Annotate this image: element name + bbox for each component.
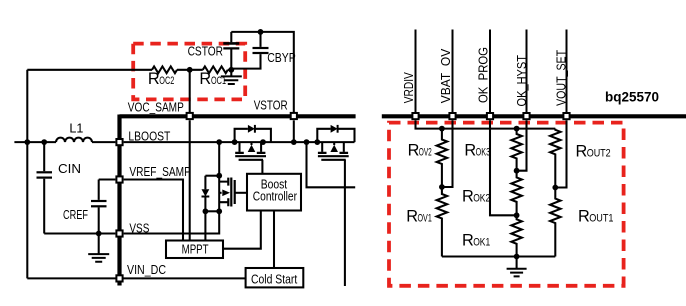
svg-text:VBAT_OV: VBAT_OV	[438, 48, 453, 103]
wire LBOOST row + stub	[14, 141, 56, 143]
svg-text:OV2: OV2	[419, 146, 432, 158]
node CBYP top	[258, 29, 264, 35]
node ROK3 top	[514, 126, 520, 132]
resistor ROK3	[511, 129, 522, 171]
wire right branch down	[307, 142, 356, 187]
node PMOS1 loop left	[232, 139, 238, 145]
IC edge right	[382, 114, 686, 118]
box Cold Start	[246, 268, 304, 287]
svg-text:LBOOST: LBOOST	[128, 128, 170, 143]
node NMOS rail tap	[216, 139, 222, 145]
wire VREF row outside	[99, 178, 116, 180]
pin VRDIV	[412, 113, 418, 119]
resistor ROV2	[437, 129, 448, 187]
svg-text:OV1: OV1	[418, 212, 432, 224]
node diode bottom	[203, 208, 209, 214]
wire MPPT to Boost Controller	[223, 211, 261, 249]
ground right	[516, 257, 518, 269]
red dashed box right (resistor network)	[389, 123, 624, 286]
svg-text:CSTOR: CSTOR	[188, 44, 223, 59]
pin OK_PROG	[487, 113, 493, 119]
svg-text:R: R	[578, 207, 590, 225]
wire VSS row outside	[44, 232, 115, 234]
node right branch	[304, 139, 310, 145]
IC outline left edge	[117, 115, 121, 286]
svg-text:OK1: OK1	[473, 236, 490, 248]
pin VBAT_OV	[449, 113, 455, 119]
wire VBAT_OV pin lead	[452, 30, 454, 113]
svg-text:R: R	[464, 141, 476, 159]
pin VOC_SAMP	[187, 113, 193, 119]
node PMOS1 right lead	[260, 139, 266, 145]
wire VBAT_OV lead	[442, 120, 453, 187]
pin VREF_SAMP	[116, 176, 122, 182]
pin VIN_DC	[116, 275, 122, 281]
svg-text:OK2: OK2	[473, 193, 490, 205]
capacitor CIN	[43, 142, 45, 171]
pin LBOOST	[116, 139, 122, 145]
wire ROC2-ROC1	[177, 69, 203, 71]
node CREF bottom	[96, 231, 102, 237]
svg-text:R: R	[462, 231, 474, 249]
svg-text:OUT1: OUT1	[589, 212, 613, 224]
wire drain to diode	[205, 175, 219, 177]
svg-text:OK3: OK3	[476, 146, 491, 158]
svg-text:R: R	[148, 70, 160, 88]
node PMOS2 loop left	[314, 139, 320, 145]
resistor ROUT2	[550, 129, 561, 188]
transistor Q3 (PMOS switch)	[322, 142, 344, 152]
pin VSTOR	[291, 113, 297, 119]
pin VOUT_SET	[563, 113, 569, 119]
svg-text:R: R	[462, 188, 474, 206]
svg-text:Cold Start: Cold Start	[251, 271, 298, 286]
node NMOS source bottom	[216, 208, 222, 214]
resistor ROC2	[152, 66, 177, 73]
wire VRDIV pin lead	[415, 30, 417, 113]
svg-text:OK_HYST: OK_HYST	[514, 55, 529, 107]
resistor ROK2	[511, 171, 522, 216]
ground left	[98, 234, 100, 254]
svg-text:R: R	[408, 141, 420, 159]
capacitor CSTOR	[230, 32, 232, 42]
IC outline top edge	[120, 114, 356, 118]
wire VIN_DC row	[27, 277, 245, 279]
wire top (VSTOR to caps)	[231, 32, 293, 112]
ground top	[230, 70, 232, 76]
box Boost Controller	[247, 174, 301, 211]
svg-text:OC2: OC2	[159, 75, 174, 87]
node NMOS drain top	[216, 173, 222, 179]
svg-text:L1: L1	[69, 121, 83, 136]
wire L1 to LBOOST pin	[92, 141, 115, 143]
wire ROC1 to gnd node	[228, 69, 232, 71]
wire VOUT_SET lead	[555, 120, 566, 187]
wire VSS inner	[124, 211, 220, 233]
node gnd top	[228, 67, 234, 73]
wire VSTOR pin lead	[293, 120, 295, 142]
wire Boost Controller to Cold Start	[273, 211, 275, 269]
svg-text:VREF_SAMP: VREF_SAMP	[129, 164, 191, 179]
wire OK_HYST pin lead	[526, 30, 528, 113]
node ROUT junction	[552, 185, 558, 191]
resistor ROC1	[203, 66, 228, 73]
svg-text:CBYP: CBYP	[267, 50, 296, 65]
node ROK3/ROK2 junction	[514, 168, 520, 174]
svg-text:VOUT_SET: VOUT_SET	[553, 50, 568, 106]
wire diode bottom to MPPT	[204, 211, 206, 240]
svg-text:R: R	[406, 207, 418, 225]
wire rail to NMOS drain	[218, 142, 220, 176]
inductor L1	[56, 138, 92, 143]
svg-text:VOC_SAMP: VOC_SAMP	[128, 99, 184, 114]
node ROV2 top	[439, 126, 445, 132]
resistor ROUT1	[550, 188, 561, 257]
node CIN tap	[41, 139, 47, 145]
svg-text:VRDIV: VRDIV	[401, 72, 416, 103]
wire OK_PROG lead	[490, 120, 517, 215]
transistor Q3 (PMOS switch) body diode	[317, 129, 330, 142]
wire bottom node	[205, 210, 219, 212]
svg-text:VSS: VSS	[129, 220, 149, 235]
box MPPT	[166, 241, 223, 259]
svg-text:CIN: CIN	[58, 161, 81, 176]
node VSTOR lead	[291, 139, 297, 145]
svg-text:CREF: CREF	[63, 207, 88, 222]
wire VIN to ROC2 (left vertical rail)	[26, 70, 28, 279]
node VIN/LBOOST	[24, 139, 30, 145]
svg-text:R: R	[199, 70, 211, 88]
capacitor CREF	[98, 180, 100, 200]
resistor ROV1	[437, 187, 448, 257]
transistor Q1 (NMOS)	[218, 176, 220, 212]
wire LBOOST inner rail	[124, 141, 355, 143]
node VOC_SAMP tap	[187, 67, 193, 73]
wire ROC row left	[27, 69, 152, 71]
wire VOC_SAMP lead inner	[189, 120, 191, 240]
node ROK2/ROK1 junction	[514, 212, 520, 218]
capacitor CBYP	[259, 32, 261, 47]
svg-text:MPPT: MPPT	[182, 241, 209, 256]
svg-text:bq25570: bq25570	[605, 89, 659, 104]
svg-text:Controller: Controller	[253, 188, 298, 203]
wire bottom rail	[442, 255, 555, 257]
svg-text:VIN_DC: VIN_DC	[127, 262, 166, 277]
wire VREF_SAMP inner	[124, 180, 183, 241]
wire VOUT_SET pin lead	[566, 30, 568, 113]
transistor Q2 (PMOS switch)	[240, 142, 262, 152]
resistor ROK1	[511, 215, 522, 256]
diode D1	[204, 176, 206, 190]
svg-text:R: R	[576, 142, 588, 160]
wire VOC_SAMP lead	[189, 70, 191, 112]
svg-text:OK_PROG: OK_PROG	[475, 47, 490, 103]
node ground tap	[514, 254, 520, 260]
pin VSS	[116, 230, 122, 236]
red dashed box left (ROC divider)	[133, 44, 245, 100]
wire OK_HYST lead	[517, 120, 527, 170]
transistor Q2 (PMOS switch) body diode	[235, 129, 248, 142]
wire VRDIV distribution	[416, 120, 556, 128]
svg-text:OUT2: OUT2	[587, 147, 611, 159]
pin OK_HYST	[523, 113, 529, 119]
wire OK_PROG pin lead	[489, 30, 491, 113]
node ROV junction	[439, 184, 445, 190]
svg-text:VSTOR: VSTOR	[254, 98, 288, 113]
